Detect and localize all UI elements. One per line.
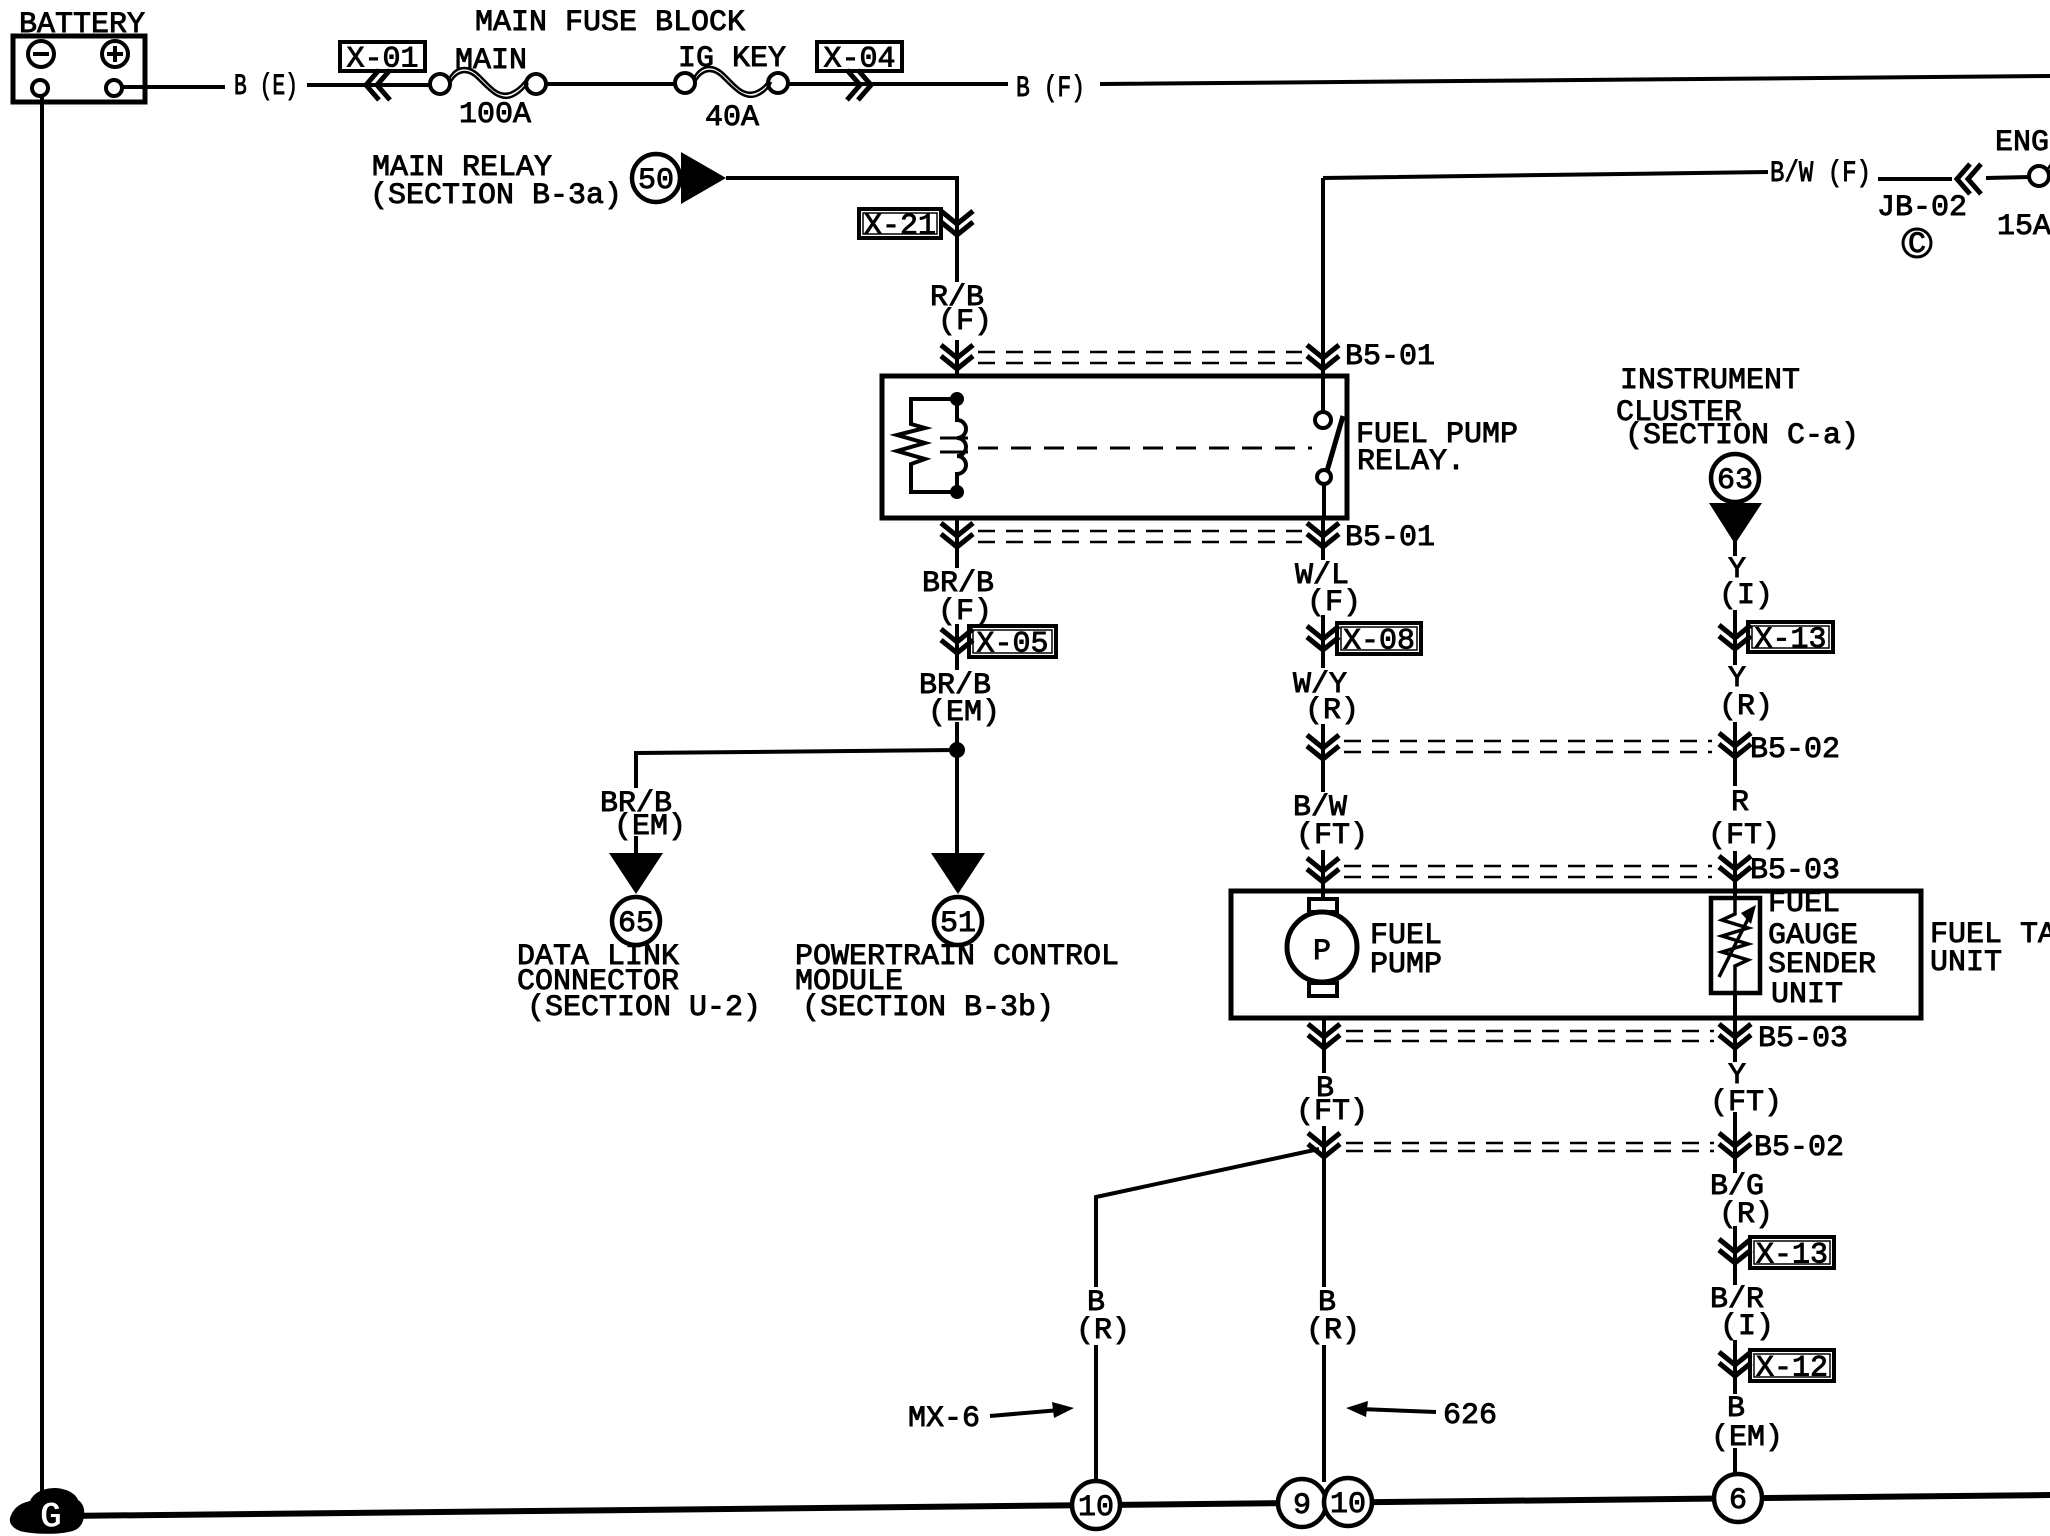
- net label Y (I): [1719, 553, 1773, 613]
- fuel pump motor M1: [1287, 899, 1357, 996]
- terminal triangle to node 65: [609, 853, 663, 894]
- ground node 9: [1278, 1479, 1326, 1527]
- svg-text:SENDER: SENDER: [1768, 948, 1876, 982]
- connector X-08: [1307, 623, 1421, 659]
- net label Y (FT): [1710, 1059, 1782, 1120]
- net label B/W (FT): [1293, 791, 1368, 853]
- svg-text:(R): (R): [1305, 694, 1359, 728]
- wire between fuses: [546, 82, 675, 86]
- wire battery negative to ground: [40, 96, 44, 1492]
- svg-text:X-01: X-01: [347, 43, 419, 77]
- svg-text:(EM): (EM): [614, 810, 686, 844]
- connector B5-02 row: [1307, 733, 1840, 767]
- wire through sender: [1733, 898, 1737, 1018]
- svg-text:RELAY.: RELAY.: [1357, 445, 1465, 479]
- relay resistor: [897, 399, 957, 492]
- svg-text:PUMP: PUMP: [1370, 948, 1442, 982]
- svg-text:(FT): (FT): [1296, 1095, 1368, 1129]
- svg-text:B (E): B (E): [234, 70, 298, 104]
- svg-text:(F): (F): [938, 595, 992, 629]
- svg-text:15A: 15A: [1997, 210, 2050, 244]
- wire B(F) to right edge: [1100, 76, 2050, 84]
- svg-text:B5-02: B5-02: [1754, 1131, 1844, 1165]
- wire fuse to B(F): [788, 82, 1008, 86]
- net label Y (R): [1719, 662, 1773, 724]
- svg-text:(SECTION B-3a): (SECTION B-3a): [370, 179, 622, 213]
- svg-text:(FT): (FT): [1710, 1086, 1782, 1120]
- data link connector label: [517, 940, 761, 1025]
- relay switch contact bottom: [1317, 470, 1331, 484]
- wire B(E) battery to fuse block: [122, 85, 432, 87]
- net label BR/B (EM) left: [600, 787, 686, 844]
- svg-text:(R): (R): [1719, 690, 1773, 724]
- svg-text:626: 626: [1443, 1399, 1497, 1433]
- svg-text:INSTRUMENT: INSTRUMENT: [1620, 364, 1800, 398]
- wire Y column (cluster to sender): [1733, 540, 1737, 898]
- svg-text:(SECTION C-a): (SECTION C-a): [1625, 419, 1859, 453]
- svg-text:10: 10: [1330, 1488, 1366, 1522]
- relay switch contact top: [1321, 377, 1325, 412]
- svg-text:(R): (R): [1719, 1198, 1773, 1232]
- svg-text:9: 9: [1293, 1489, 1311, 1523]
- svg-text:65: 65: [618, 907, 654, 941]
- fuel tank unit label: [1930, 918, 2050, 980]
- fuel pump relay U1: [882, 376, 1518, 518]
- main relay label: [370, 151, 622, 213]
- svg-text:50: 50: [638, 164, 674, 198]
- svg-text:X-21: X-21: [864, 210, 936, 244]
- wire MX-6 branch: [1096, 1149, 1319, 1482]
- wire B/W (F) from relay to engine fuse: [1323, 172, 2029, 179]
- node 63: [1711, 454, 1759, 502]
- svg-text:(EM): (EM): [1711, 1421, 1783, 1455]
- svg-text:(R): (R): [1076, 1314, 1130, 1348]
- wire main relay to X-21: [726, 178, 957, 376]
- net label BR/B (EM) middle: [919, 669, 1000, 730]
- connector X-05: [941, 626, 1056, 662]
- junction node: [949, 742, 965, 758]
- wire B (FT): [1322, 1018, 1326, 1482]
- svg-text:R: R: [1731, 786, 1749, 820]
- svg-text:X-08: X-08: [1343, 625, 1415, 659]
- net label R/B (F): [930, 281, 992, 339]
- ground symbol G (car body): [10, 1488, 84, 1536]
- relay coil: [957, 399, 966, 492]
- net label B (E): [234, 70, 298, 104]
- connector X-04: [817, 42, 902, 100]
- svg-text:63: 63: [1717, 464, 1753, 498]
- svg-text:JB-02: JB-02: [1877, 191, 1967, 225]
- ground node 10 (626): [1324, 1478, 1372, 1526]
- net label B (R) middle: [1306, 1286, 1360, 1348]
- fuel pump label: [1370, 919, 1442, 982]
- net label R (FT): [1708, 786, 1780, 853]
- svg-text:(SECTION U-2): (SECTION U-2): [527, 991, 761, 1025]
- net label B (FT): [1296, 1072, 1368, 1129]
- net label B (F): [1016, 72, 1085, 106]
- svg-text:G: G: [40, 1497, 62, 1536]
- svg-text:(SECTION B-3b): (SECTION B-3b): [802, 991, 1054, 1025]
- svg-text:(I): (I): [1720, 1310, 1774, 1344]
- svg-text:10: 10: [1078, 1491, 1114, 1525]
- svg-text:100A: 100A: [459, 98, 531, 132]
- svg-text:B5-03: B5-03: [1758, 1022, 1848, 1056]
- svg-text:B (F): B (F): [1016, 72, 1085, 106]
- net label BR/B (F): [922, 567, 994, 629]
- fuse ENG 15A: [1995, 126, 2050, 244]
- svg-text:(F): (F): [1307, 586, 1361, 620]
- connector B5-01 bottom row: [941, 521, 1435, 555]
- wire BR/B (F): [955, 518, 959, 853]
- svg-text:ENG: ENG: [1995, 126, 2049, 160]
- fuse IG KEY 40A: [675, 42, 788, 135]
- connector B5-01 top row: [941, 340, 1435, 374]
- ground node 6: [1714, 1474, 1762, 1522]
- svg-text:X-13: X-13: [1756, 1239, 1828, 1273]
- svg-text:(F): (F): [938, 305, 992, 339]
- svg-text:UNIT: UNIT: [1771, 978, 1843, 1012]
- connector X-12: [1719, 1350, 1834, 1386]
- svg-text:51: 51: [940, 907, 976, 941]
- svg-text:B/W (F): B/W (F): [1770, 157, 1871, 191]
- svg-text:B5-01: B5-01: [1345, 340, 1435, 374]
- relay switch blade: [1327, 416, 1343, 471]
- net label W/Y (R): [1293, 668, 1359, 728]
- svg-text:UNIT: UNIT: [1930, 946, 2002, 980]
- net label B/W (F): [1770, 157, 1871, 191]
- svg-text:P: P: [1313, 935, 1331, 969]
- wire Y (FT): [1733, 1018, 1737, 1475]
- svg-text:B5-02: B5-02: [1750, 733, 1840, 767]
- net label B/R (I): [1710, 1283, 1774, 1344]
- svg-text:X-12: X-12: [1756, 1352, 1828, 1386]
- fuel gauge sender unit label: [1768, 887, 1876, 1012]
- wire branch to data link connector: [636, 750, 957, 853]
- svg-text:X-13: X-13: [1755, 623, 1827, 657]
- node 65: [612, 897, 660, 945]
- net label B (R) left: [1076, 1286, 1130, 1348]
- relay coil node top: [950, 392, 964, 406]
- relay mech link (dashed): [978, 447, 1312, 450]
- node 51: [934, 897, 982, 945]
- svg-text:FUEL: FUEL: [1768, 887, 1840, 921]
- net label B (EM): [1711, 1392, 1783, 1455]
- svg-text:(R): (R): [1306, 1314, 1360, 1348]
- net label B/G (R): [1710, 1170, 1773, 1232]
- connector X-13: [1719, 622, 1833, 657]
- instrument cluster label: [1616, 364, 1859, 453]
- svg-text:(FT): (FT): [1708, 819, 1780, 853]
- relay coil node bottom: [950, 485, 964, 499]
- svg-text:B5-03: B5-03: [1750, 854, 1840, 888]
- svg-text:(FT): (FT): [1296, 819, 1368, 853]
- svg-text:IG KEY: IG KEY: [678, 42, 786, 76]
- connector X-21: [859, 209, 973, 244]
- fuel gauge sender unit (variable resistor): [1711, 898, 1760, 993]
- svg-text:40A: 40A: [705, 101, 759, 135]
- label MX-6 with arrow: [908, 1402, 1074, 1436]
- svg-text:(I): (I): [1719, 579, 1773, 613]
- connector X-01: [340, 42, 425, 100]
- svg-text:(EM): (EM): [928, 696, 1000, 730]
- svg-text:6: 6: [1729, 1484, 1747, 1518]
- fuel tank unit box: [1231, 891, 1921, 1018]
- connector B5-03 lower row: [1308, 1022, 1848, 1056]
- powertrain control module label: [795, 940, 1119, 1025]
- svg-text:B5-01: B5-01: [1345, 521, 1435, 555]
- fuse MAIN 100A: [430, 44, 546, 132]
- connector X-13 lower: [1719, 1237, 1834, 1273]
- terminal triangle to node 51: [931, 853, 985, 894]
- connector B5-02 lower row: [1308, 1131, 1844, 1165]
- ground bus wire: [62, 1495, 2050, 1516]
- main fuse block label: [475, 6, 745, 40]
- svg-text:X-05: X-05: [977, 628, 1049, 662]
- node 50 main relay source: [632, 152, 726, 204]
- connector JB-02 C chevron: [1877, 164, 1981, 262]
- terminal triangle from node 63: [1709, 503, 1762, 544]
- battery: [13, 8, 145, 102]
- label 626 with arrow: [1346, 1399, 1497, 1433]
- ground node 10 (MX-6): [1072, 1481, 1120, 1529]
- svg-text:MX-6: MX-6: [908, 1402, 980, 1436]
- svg-text:C: C: [1908, 228, 1926, 262]
- svg-text:MAIN FUSE BLOCK: MAIN FUSE BLOCK: [475, 6, 745, 40]
- net label W/L (F): [1295, 559, 1361, 620]
- wire W/L column (relay switch to fuel pump): [1321, 178, 1325, 899]
- connector B5-03 row: [1307, 854, 1840, 888]
